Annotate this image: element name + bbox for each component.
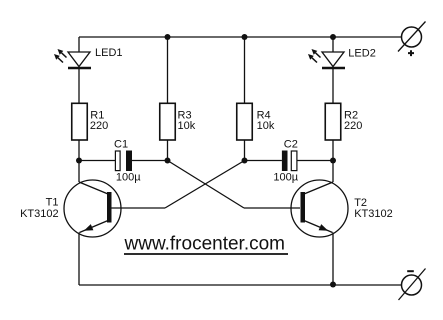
- resistor R3: [160, 103, 176, 140]
- svg-text:220: 220: [344, 120, 362, 132]
- svg-text:10k: 10k: [257, 120, 275, 132]
- resistor R1: [72, 103, 88, 140]
- wire diagonal R3->T2 base: [168, 161, 245, 209]
- resistor R4: [237, 103, 253, 140]
- svg-text:LED2: LED2: [348, 47, 376, 59]
- LED2: [308, 49, 345, 68]
- resistor R2: [325, 103, 341, 140]
- svg-text:www.frocenter.com: www.frocenter.com: [124, 234, 286, 255]
- capacitor C2: [282, 151, 297, 172]
- wire C2 row: [245, 160, 334, 162]
- transistor T2: [291, 180, 348, 237]
- svg-text:KT3102: KT3102: [354, 208, 393, 220]
- wire diagonal R4->T1 base: [165, 161, 245, 209]
- svg-text:100µ: 100µ: [273, 172, 298, 184]
- svg-text:C1: C1: [114, 139, 128, 151]
- LED1: [54, 49, 91, 68]
- caption underline: [124, 253, 288, 255]
- svg-text:T2: T2: [354, 197, 367, 209]
- svg-text:KT3102: KT3102: [20, 208, 59, 220]
- wire column C (R4): [244, 37, 246, 161]
- wire T2 base horizontal: [244, 207, 300, 209]
- node junction dots: [76, 34, 336, 288]
- capacitor C1: [115, 151, 132, 172]
- transistor T1: [64, 180, 121, 237]
- wire column A (LED1/R1/T1): [78, 37, 80, 285]
- terminal + (top right): [398, 22, 426, 57]
- svg-text:100µ: 100µ: [116, 172, 141, 184]
- wire C1 row: [79, 160, 168, 162]
- wire column B (R3): [167, 37, 169, 161]
- wire T1 base horizontal: [112, 207, 166, 209]
- wire bottom rail: [79, 284, 402, 286]
- svg-text:LED1: LED1: [95, 47, 123, 59]
- svg-text:T1: T1: [46, 196, 59, 208]
- svg-text:10k: 10k: [178, 120, 196, 132]
- svg-text:220: 220: [90, 120, 108, 132]
- svg-text:C2: C2: [284, 139, 298, 151]
- terminal - (bottom right): [399, 269, 426, 301]
- wire column D (LED2/R2/T2): [332, 37, 334, 285]
- wire top rail: [79, 36, 402, 38]
